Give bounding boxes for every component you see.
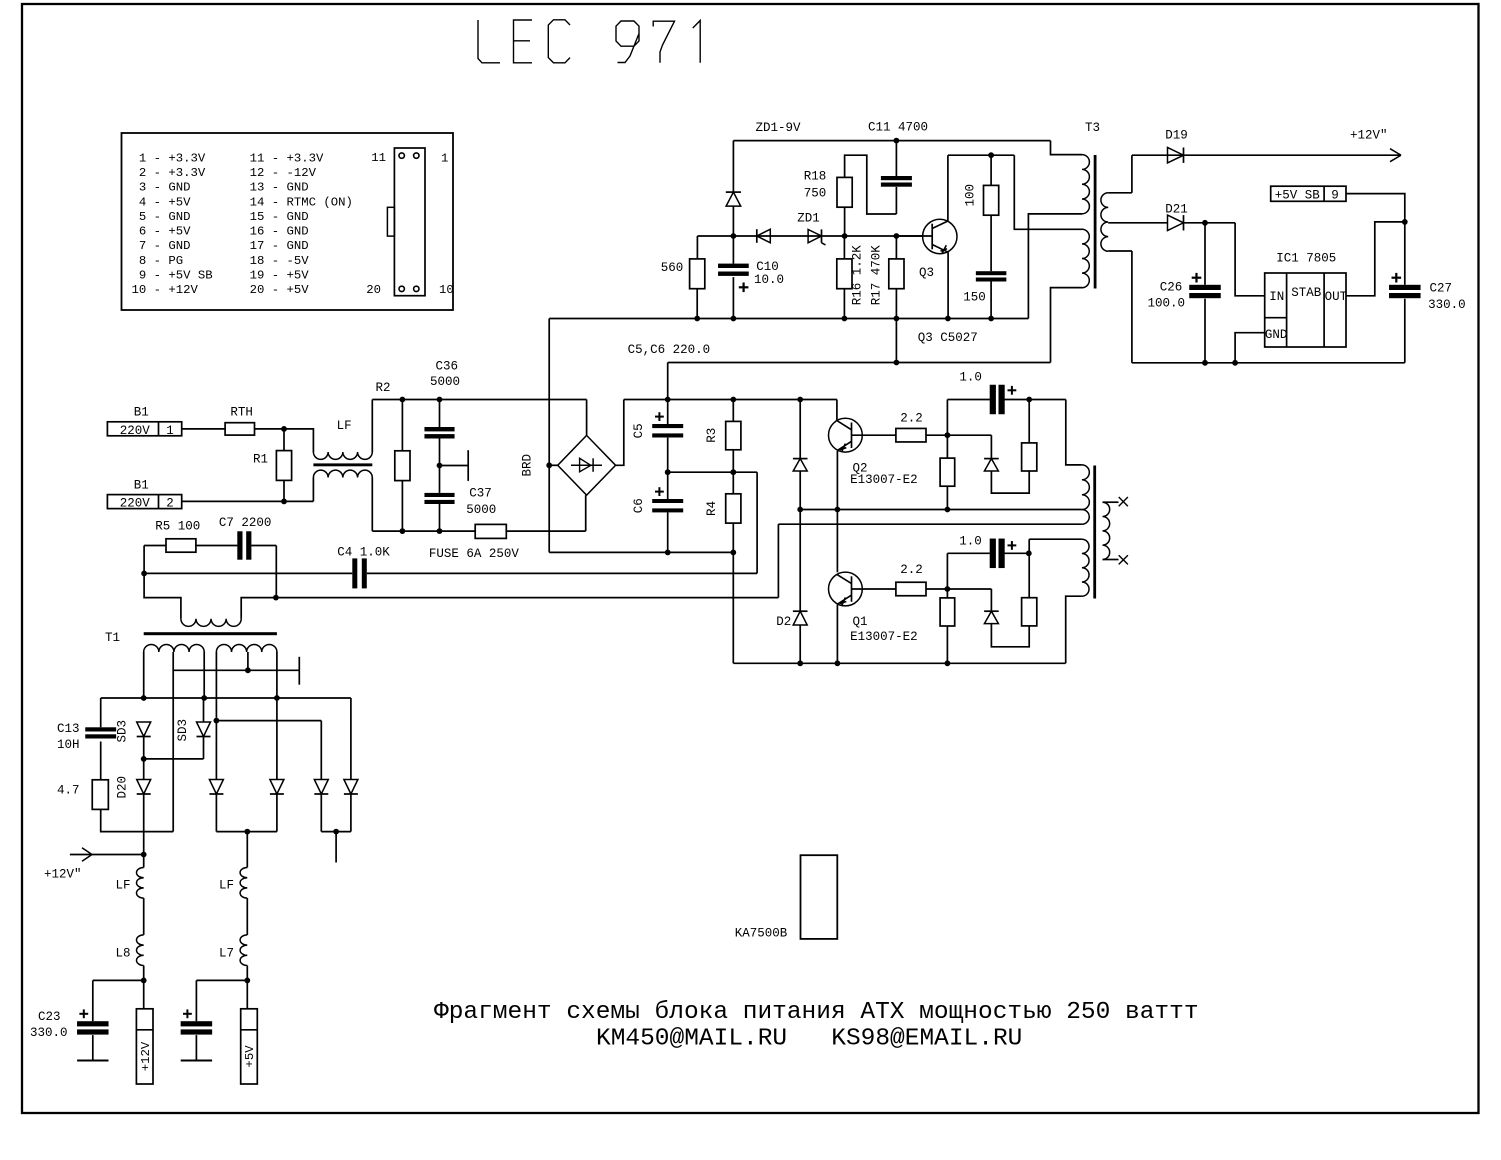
svg-text:+5V SB: +5V SB xyxy=(1275,188,1321,202)
svg-text:R3: R3 xyxy=(705,428,719,443)
svg-text:OUT: OUT xyxy=(1325,290,1348,304)
svg-text:750: 750 xyxy=(804,186,827,200)
svg-text:D19: D19 xyxy=(1165,128,1188,142)
svg-text:Q1: Q1 xyxy=(853,615,868,629)
svg-text:Q3: Q3 xyxy=(919,266,934,280)
svg-text:C23: C23 xyxy=(38,1010,61,1024)
svg-text:+12V": +12V" xyxy=(44,868,82,882)
svg-text:R18: R18 xyxy=(804,170,827,184)
svg-text:B1: B1 xyxy=(134,406,149,420)
svg-text:6 - +5V 16 - GND: 6 - +5V 16 - GND xyxy=(132,225,309,239)
svg-text:8 - PG 18 - -5V: 8 - PG 18 - -5V xyxy=(132,254,310,268)
svg-text:11: 11 xyxy=(371,151,386,165)
svg-text:100.0: 100.0 xyxy=(1148,297,1186,311)
svg-text:R4: R4 xyxy=(705,501,719,516)
svg-text:C4 1.0K: C4 1.0K xyxy=(337,546,390,560)
svg-text:10: 10 xyxy=(439,283,454,297)
svg-text:B1: B1 xyxy=(134,478,149,492)
svg-text:2 - +3.3V 12 - -12V: 2 - +3.3V 12 - -12V xyxy=(132,166,317,180)
svg-text:150: 150 xyxy=(963,290,986,304)
svg-text:R16 1.2K: R16 1.2K xyxy=(851,245,865,306)
svg-text:RTH: RTH xyxy=(230,406,253,420)
svg-text:C36: C36 xyxy=(436,360,459,374)
svg-text:C5: C5 xyxy=(632,423,646,438)
svg-text:C37: C37 xyxy=(469,487,492,501)
svg-text:R5 100: R5 100 xyxy=(155,520,200,534)
svg-text:GND: GND xyxy=(1265,328,1288,342)
svg-text:330.0: 330.0 xyxy=(1428,298,1466,312)
svg-text:1: 1 xyxy=(441,152,448,166)
svg-text:LF: LF xyxy=(219,879,234,893)
svg-text:LF: LF xyxy=(116,879,131,893)
svg-text:STAB: STAB xyxy=(1291,286,1322,300)
svg-text:FUSE 6A 250V: FUSE 6A 250V xyxy=(429,547,520,561)
svg-text:L7: L7 xyxy=(219,947,234,961)
svg-text:+5V: +5V xyxy=(243,1045,257,1068)
svg-text:1.0: 1.0 xyxy=(959,371,982,385)
svg-text:C7 2200: C7 2200 xyxy=(219,516,272,530)
svg-text:D2: D2 xyxy=(776,615,791,629)
svg-text:1.0: 1.0 xyxy=(959,534,982,548)
svg-text:T3: T3 xyxy=(1085,121,1100,135)
svg-text:E13007-E2: E13007-E2 xyxy=(850,473,918,487)
svg-text:1: 1 xyxy=(166,424,174,438)
svg-text:3 - GND 13 - GND: 3 - GND 13 - GND xyxy=(132,181,309,195)
svg-text:20: 20 xyxy=(366,283,381,297)
svg-text:Фрагмент схемы блока питания A: Фрагмент схемы блока питания ATX мощност… xyxy=(434,999,1199,1026)
svg-text:C26: C26 xyxy=(1160,280,1183,294)
svg-text:R1: R1 xyxy=(253,453,268,467)
svg-text:5000: 5000 xyxy=(466,503,496,517)
svg-text:9 - +5V SB 19 - +5V: 9 - +5V SB 19 - +5V xyxy=(132,269,310,283)
svg-text:Q3 C5027: Q3 C5027 xyxy=(918,331,978,345)
svg-text:+12V: +12V xyxy=(139,1041,153,1071)
svg-text:L8: L8 xyxy=(116,947,131,961)
svg-text:7 - GND 17 - GND: 7 - GND 17 - GND xyxy=(132,239,309,253)
svg-text:220V: 220V xyxy=(120,497,151,511)
svg-text:T1: T1 xyxy=(105,631,120,645)
svg-text:5 - GND 15 - GND: 5 - GND 15 - GND xyxy=(132,210,309,224)
svg-text:R2: R2 xyxy=(376,381,391,395)
svg-text:330.0: 330.0 xyxy=(30,1026,68,1040)
svg-text:LF: LF xyxy=(337,419,352,433)
svg-text:4 - +5V 14 - RTMC (ON): 4 - +5V 14 - RTMC (ON) xyxy=(132,195,353,209)
svg-text:IN: IN xyxy=(1269,290,1284,304)
svg-text:BRD: BRD xyxy=(520,454,534,477)
svg-text:2: 2 xyxy=(166,497,174,511)
svg-text:C10: C10 xyxy=(756,260,779,274)
svg-text:220V: 220V xyxy=(120,424,151,438)
svg-text:KA7500B: KA7500B xyxy=(735,927,788,941)
svg-text:R17 470K: R17 470K xyxy=(869,245,883,306)
svg-text:10 - +12V 20 - +5V: 10 - +12V 20 - +5V xyxy=(132,283,310,297)
svg-text:SD3: SD3 xyxy=(176,719,190,742)
svg-text:5000: 5000 xyxy=(430,375,460,389)
svg-text:C6: C6 xyxy=(632,498,646,513)
svg-text:D20: D20 xyxy=(115,776,129,799)
svg-text:E13007-E2: E13007-E2 xyxy=(850,630,918,644)
svg-text:ZD1-9V: ZD1-9V xyxy=(756,121,802,135)
svg-text:KM450@MAIL.RU KS98@EMAIL.RU: KM450@MAIL.RU KS98@EMAIL.RU xyxy=(596,1026,1022,1053)
svg-text:10.0: 10.0 xyxy=(754,273,784,287)
svg-text:2.2: 2.2 xyxy=(900,563,923,577)
svg-text:4.7: 4.7 xyxy=(57,783,80,797)
svg-text:IC1 7805: IC1 7805 xyxy=(1276,252,1336,266)
svg-text:560: 560 xyxy=(661,261,684,275)
svg-text:1 - +3.3V 11 - +3.3V: 1 - +3.3V 11 - +3.3V xyxy=(132,151,324,165)
svg-text:100: 100 xyxy=(963,184,977,207)
svg-text:C27: C27 xyxy=(1430,282,1453,296)
svg-text:C11 4700: C11 4700 xyxy=(868,121,928,135)
svg-text:10H: 10H xyxy=(57,738,80,752)
svg-text:C5,C6 220.0: C5,C6 220.0 xyxy=(628,343,711,357)
svg-text:9: 9 xyxy=(1331,188,1339,202)
svg-text:ZD1: ZD1 xyxy=(797,212,820,226)
svg-text:C13: C13 xyxy=(57,722,80,736)
svg-text:SD3: SD3 xyxy=(115,720,129,743)
svg-text:+12V": +12V" xyxy=(1350,128,1388,142)
svg-text:D21: D21 xyxy=(1165,202,1188,216)
svg-text:2.2: 2.2 xyxy=(900,411,923,425)
